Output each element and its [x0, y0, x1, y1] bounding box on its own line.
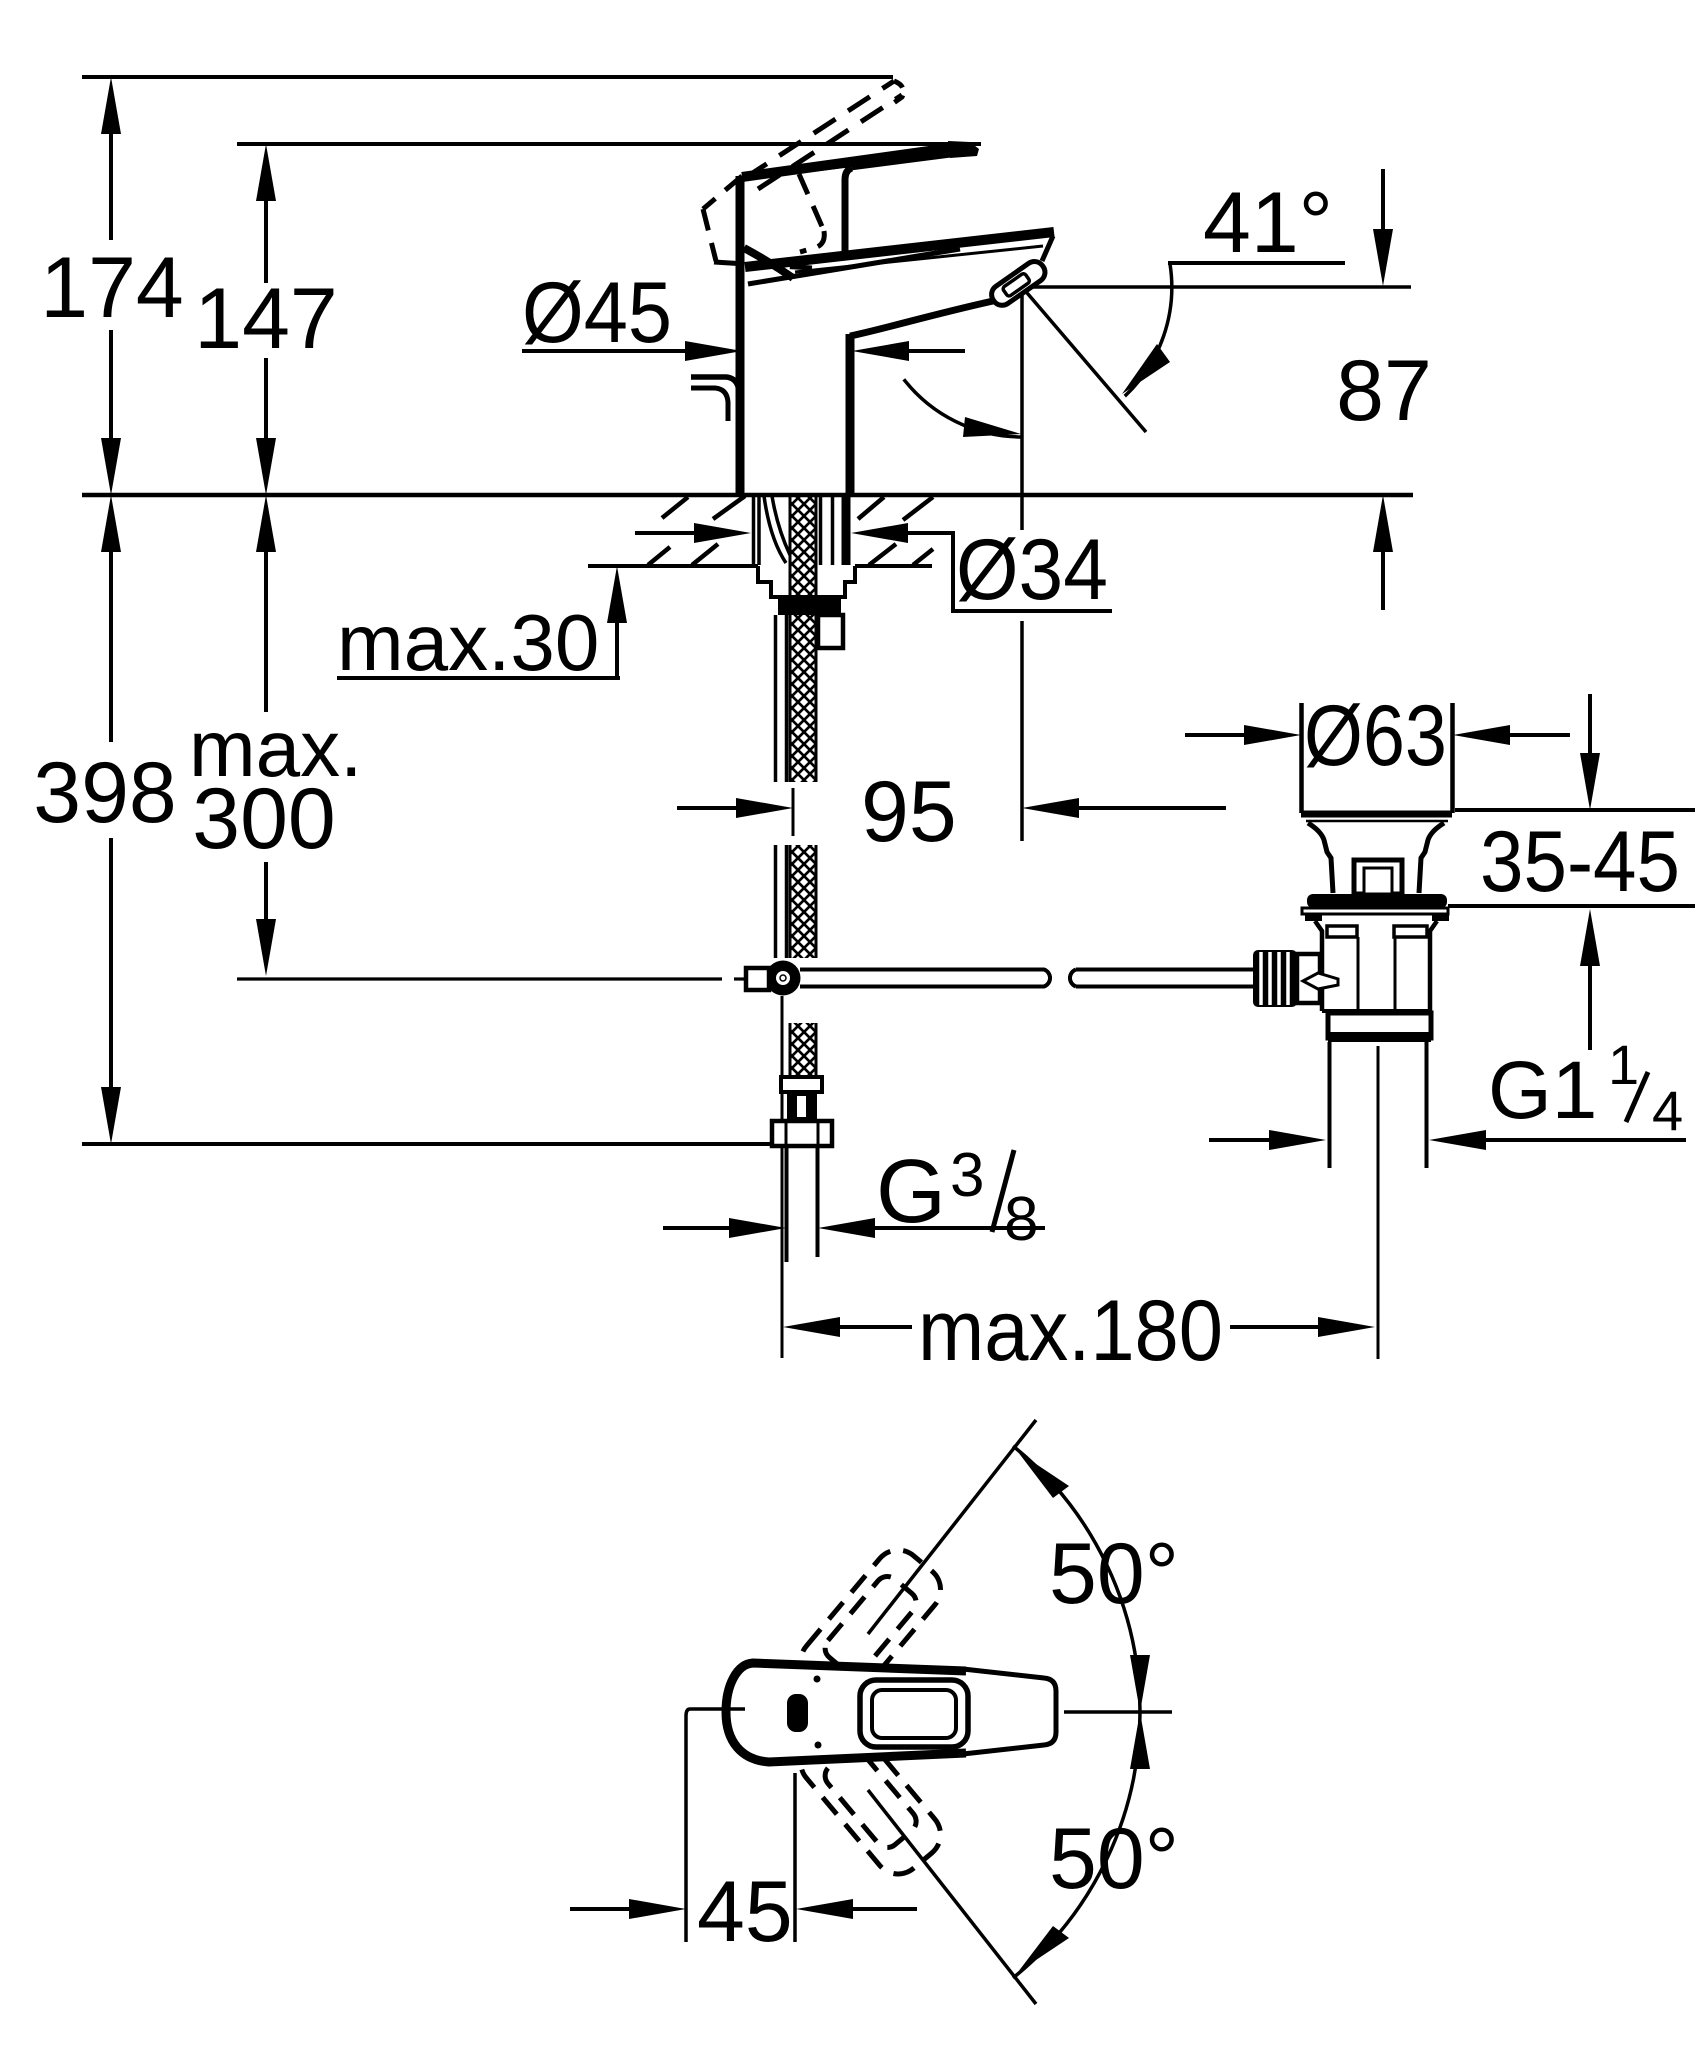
faucet body left edge — [736, 176, 745, 494]
top view dashed handle up — [791, 1540, 950, 1710]
horizontal pop-up rod — [800, 970, 1253, 987]
G 3/8 arrows — [663, 1218, 1045, 1238]
pop-up ball joint — [746, 961, 801, 996]
max.30 label — [337, 566, 627, 687]
pop-up valve flange — [1302, 908, 1449, 921]
svg-text:max.30: max.30 — [337, 598, 599, 687]
hose lower fitting — [772, 1077, 832, 1146]
svg-text:8: 8 — [1004, 1185, 1038, 1254]
svg-text:G1: G1 — [1488, 1045, 1597, 1136]
faucet body right edge lower — [846, 334, 855, 494]
dimension 45 (top view) — [570, 1864, 917, 1960]
faucet shank in countertop — [754, 495, 847, 565]
hose break tick — [792, 788, 795, 836]
dimension max.180 — [783, 1283, 1375, 1379]
aerator horizontal line — [1023, 285, 1411, 289]
50 degree labels — [1049, 1526, 1179, 1907]
95 extension line — [1020, 287, 1024, 841]
faucet dashed raised handle — [703, 81, 903, 268]
dimension 174 — [40, 77, 184, 495]
41 degree diagonal — [1022, 287, 1146, 432]
svg-text:41°: 41° — [1203, 175, 1333, 271]
svg-text:Ø63: Ø63 — [1304, 688, 1447, 784]
svg-text:1: 1 — [1608, 1033, 1639, 1096]
svg-text:398: 398 — [33, 745, 177, 841]
41 degree label — [1168, 175, 1345, 271]
dimension 35-45 — [1448, 694, 1695, 1050]
hose lower braid — [790, 1023, 816, 1077]
faucet lever solid — [742, 141, 979, 177]
dimension 147 — [194, 144, 338, 495]
top view lower 50 arc — [1013, 1712, 1150, 1978]
pop-up valve clamp screw — [1354, 860, 1402, 894]
countertop line — [82, 493, 1413, 498]
147 reference line — [237, 142, 981, 146]
Ø34 label and leader — [904, 522, 1112, 618]
pop-up valve tail pipe — [1330, 1042, 1427, 1168]
svg-text:Ø45: Ø45 — [522, 265, 672, 361]
top reference line — [82, 75, 893, 79]
pop-up valve rod coupling — [1253, 950, 1338, 1007]
faucet spout — [745, 232, 1054, 336]
pop-up valve outlet — [1328, 1013, 1431, 1042]
top view solid handle — [722, 1660, 1058, 1765]
top view upper 50 arc — [1013, 1446, 1150, 1712]
dimension 87 — [1336, 169, 1432, 610]
braided hose — [790, 496, 816, 958]
svg-text:max.180: max.180 — [918, 1283, 1223, 1379]
svg-text:174: 174 — [40, 240, 184, 336]
svg-text:95: 95 — [861, 764, 957, 860]
top view dashed handle down — [791, 1713, 950, 1883]
svg-text:87: 87 — [1336, 343, 1432, 439]
svg-text:147: 147 — [194, 271, 338, 367]
dimension 398 — [33, 495, 177, 1144]
mounting washer — [758, 566, 855, 597]
svg-text:3: 3 — [950, 1141, 984, 1210]
pull rod — [776, 615, 787, 958]
top view 50 degree rays — [868, 1420, 1036, 2004]
svg-text:45: 45 — [697, 1864, 793, 1960]
svg-text:50°: 50° — [1049, 1811, 1179, 1907]
pop-up rod centerline — [781, 996, 784, 1358]
G1 1/4 label — [1488, 1033, 1683, 1142]
dimension 95 — [677, 764, 1226, 860]
41 degree arc upper — [1122, 264, 1172, 396]
faucet grip bottom edge — [744, 248, 793, 278]
svg-text:Ø34: Ø34 — [956, 522, 1108, 618]
pop-up valve Ø63 dimension — [1185, 688, 1570, 784]
faucet aerator tip — [988, 236, 1053, 309]
dimension Ø45 — [522, 265, 965, 361]
G 3/8 label — [876, 1141, 1038, 1254]
countertop hatching right — [858, 497, 933, 565]
dimension max.300 — [189, 495, 748, 979]
top view pin and extension lines — [686, 1709, 795, 1942]
drain centerline — [1377, 1046, 1380, 1359]
bottom reference line — [82, 1142, 770, 1146]
svg-text:50°: 50° — [1049, 1526, 1179, 1622]
countertop hatching left — [648, 496, 745, 565]
faucet cartridge front edge — [845, 168, 852, 260]
pop-up valve gasket — [1307, 894, 1447, 908]
svg-text:35-45: 35-45 — [1480, 814, 1680, 910]
41 degree arc lower — [904, 379, 1021, 437]
mounting nut — [778, 598, 843, 648]
countertop bottom line — [588, 564, 932, 568]
svg-text:300: 300 — [192, 771, 336, 867]
svg-text:4: 4 — [1652, 1079, 1683, 1142]
pop-up valve head — [1301, 703, 1453, 893]
top view handle details — [787, 1676, 822, 1749]
top view centerline — [1064, 1710, 1172, 1714]
hole dimension arrows — [635, 523, 908, 543]
hose end tube G3/8 — [787, 1146, 818, 1262]
G1 1/4 arrows — [1209, 1130, 1686, 1150]
faucet supply stub — [691, 377, 739, 421]
pop-up valve body — [1315, 921, 1437, 1011]
